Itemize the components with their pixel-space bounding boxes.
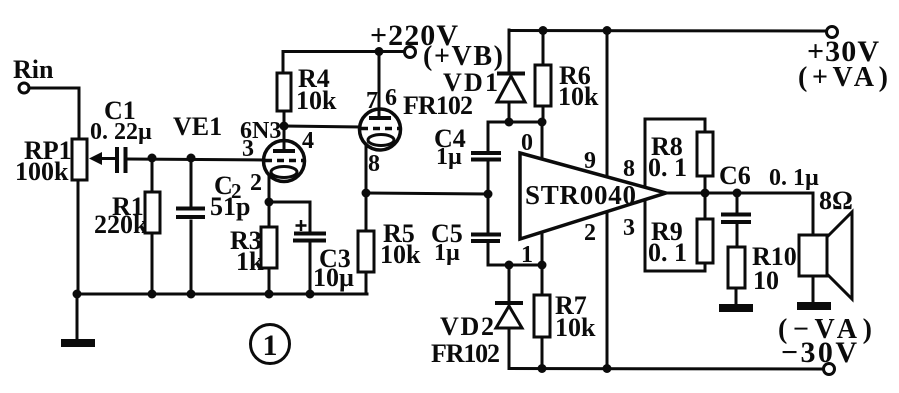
svg-text:C6: C6 — [719, 161, 751, 190]
svg-text:0. 1µ: 0. 1µ — [769, 165, 819, 191]
svg-text:0: 0 — [521, 130, 533, 156]
svg-text:0. 22µ: 0. 22µ — [90, 119, 152, 145]
svg-text:Rin: Rin — [13, 55, 54, 84]
svg-text:1µ: 1µ — [436, 144, 462, 170]
svg-text:6: 6 — [385, 85, 397, 111]
svg-text:1: 1 — [263, 329, 278, 362]
svg-text:10µ: 10µ — [313, 263, 354, 292]
svg-text:2: 2 — [584, 220, 596, 246]
svg-text:0. 1: 0. 1 — [648, 238, 687, 267]
svg-text:VD2: VD2 — [440, 312, 494, 341]
svg-text:FR102: FR102 — [403, 91, 473, 120]
svg-text:STR0040: STR0040 — [525, 180, 636, 210]
svg-text:8: 8 — [368, 151, 380, 177]
svg-text:10k: 10k — [380, 240, 421, 269]
svg-text:FR102: FR102 — [431, 339, 500, 368]
svg-text:3: 3 — [242, 136, 254, 162]
svg-text:10k: 10k — [558, 82, 599, 111]
svg-text:51p: 51p — [210, 192, 250, 221]
svg-text:100k: 100k — [15, 157, 69, 186]
svg-text:9: 9 — [584, 148, 596, 174]
svg-text:2: 2 — [250, 170, 262, 196]
svg-text:7: 7 — [366, 88, 378, 114]
svg-text:10: 10 — [753, 266, 779, 295]
svg-text:8Ω: 8Ω — [819, 186, 853, 215]
svg-text:1µ: 1µ — [434, 240, 460, 266]
svg-text:VE1: VE1 — [173, 112, 222, 141]
svg-text:−30V: −30V — [781, 336, 857, 369]
svg-text:220k: 220k — [94, 210, 148, 239]
svg-text:10k: 10k — [296, 86, 337, 115]
svg-text:8: 8 — [623, 156, 635, 182]
svg-text:10k: 10k — [555, 313, 596, 342]
svg-text:1k: 1k — [236, 247, 264, 276]
svg-text:1: 1 — [521, 242, 533, 268]
svg-text:3: 3 — [623, 215, 635, 241]
svg-text:VD1: VD1 — [443, 68, 498, 97]
svg-text:4: 4 — [302, 128, 314, 154]
svg-text:0. 1: 0. 1 — [648, 153, 687, 182]
